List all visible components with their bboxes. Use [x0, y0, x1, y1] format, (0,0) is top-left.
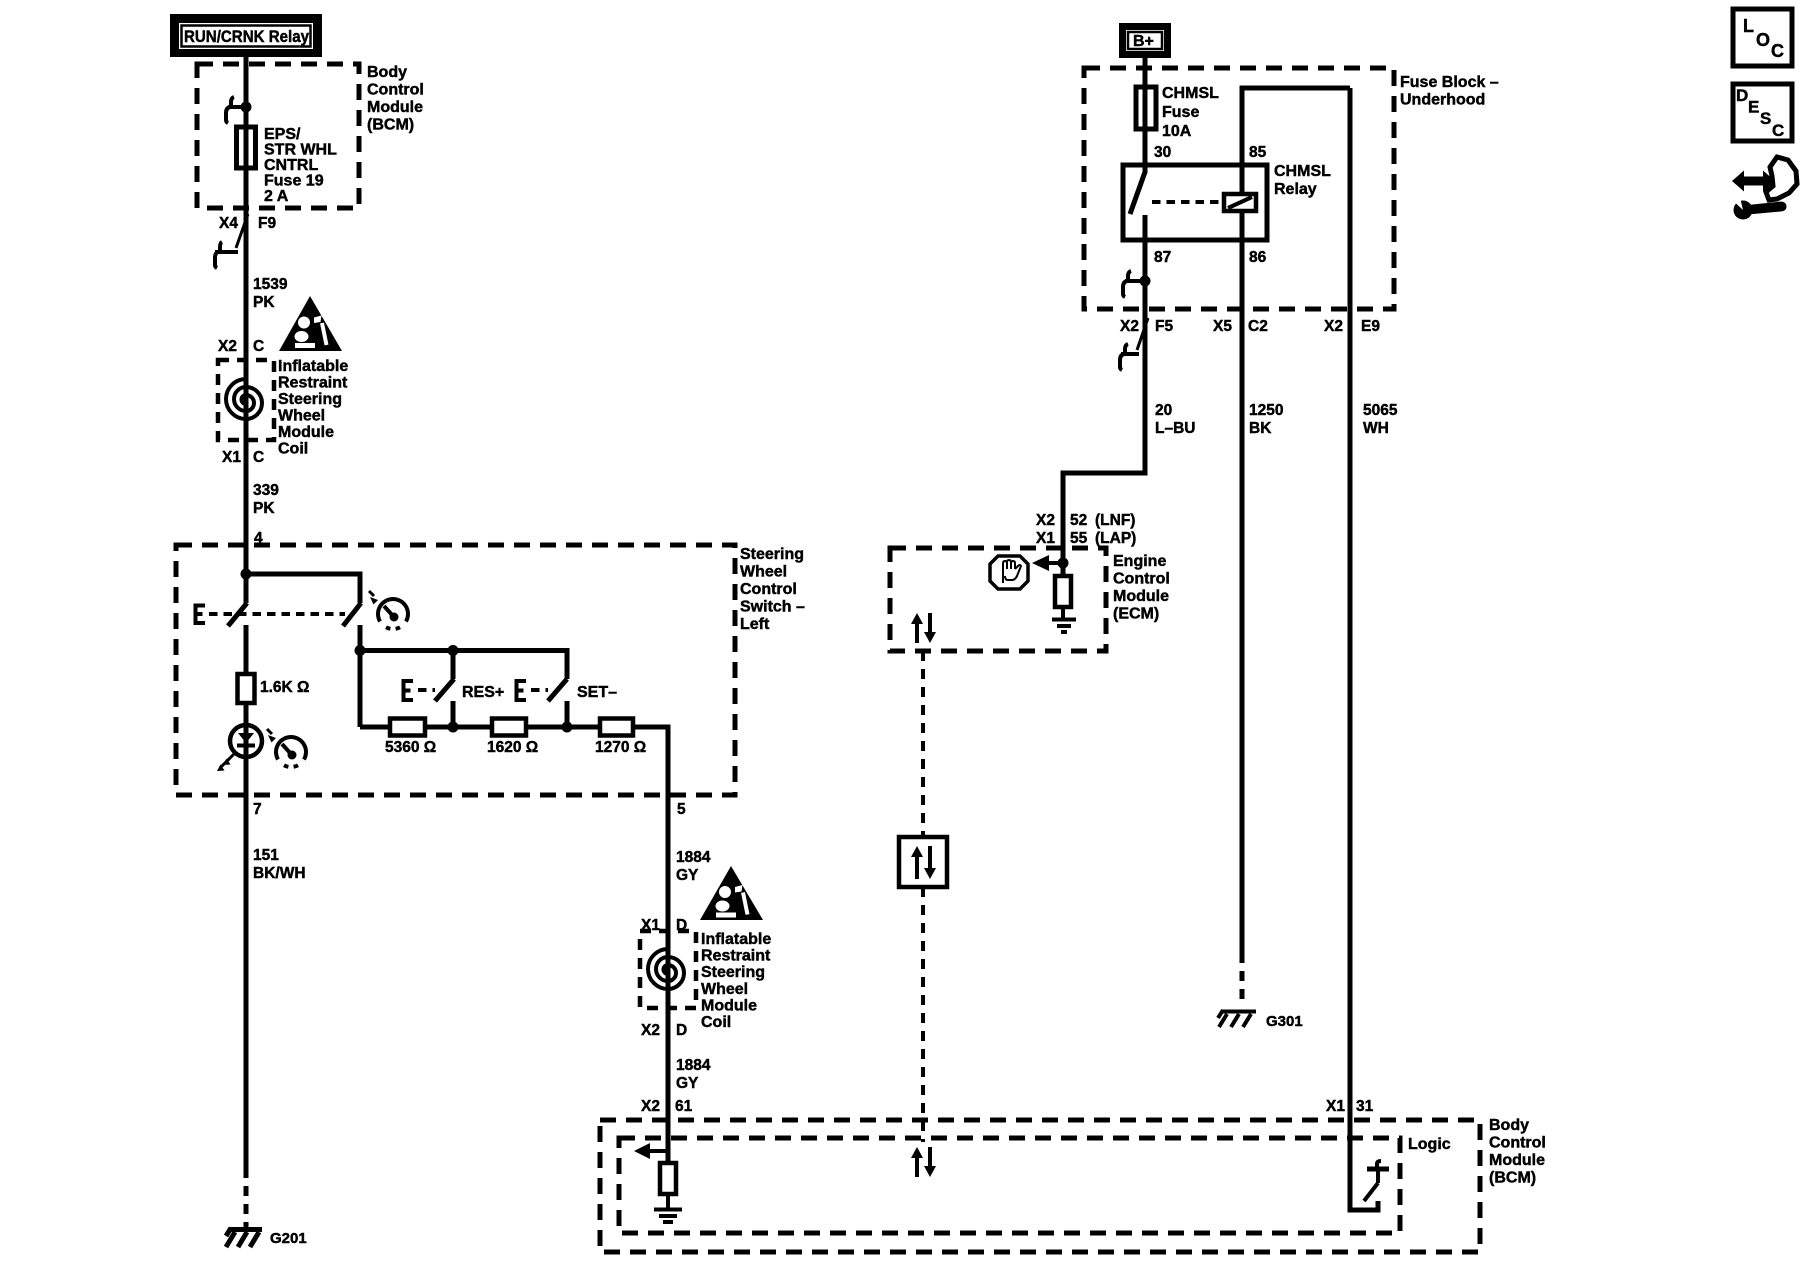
svg-text:Coil: Coil — [278, 441, 308, 458]
BCM bottom label — [1489, 1117, 1546, 1187]
coil spiral (lower) — [648, 949, 684, 989]
svg-text:GY: GY — [676, 867, 699, 884]
coil label (lower) — [701, 931, 771, 1031]
SET- lower stub — [565, 701, 570, 727]
SET- switch blade — [548, 679, 567, 701]
Fuse Block - Underhood dashed box — [1084, 68, 1394, 309]
RES+ dashed link — [418, 688, 435, 692]
resistor inside ECM — [1055, 576, 1071, 607]
BCM label — [367, 64, 424, 134]
svg-text:X2: X2 — [641, 1022, 660, 1039]
svg-text:C: C — [1772, 121, 1784, 140]
svg-text:Control: Control — [740, 581, 797, 598]
svg-text:(BCM): (BCM) — [1489, 1170, 1536, 1187]
CHMSL Relay label — [1274, 163, 1331, 198]
dashed serial data wire — [921, 651, 925, 837]
junction node 5360/RES+ — [448, 722, 459, 733]
svg-text:WH: WH — [1363, 420, 1389, 437]
fuse 19 value label — [264, 126, 337, 205]
SIR warning triangle (lower) — [700, 866, 763, 920]
svg-text:F9: F9 — [258, 215, 276, 232]
svg-text:1884: 1884 — [676, 1057, 711, 1074]
dashed actuator link switch1-switch2 — [209, 612, 345, 616]
junction node RES+ tap — [448, 645, 459, 656]
resistor ladder wire — [360, 727, 668, 795]
connector hook below X4/F9 — [215, 242, 238, 268]
connector X5 C2 labels — [1213, 318, 1268, 335]
connector X1 C labels (coil bottom) — [222, 449, 264, 466]
svg-text:Steering: Steering — [740, 546, 804, 563]
serial data up/down arrows (ECM) — [911, 613, 936, 643]
cruise gauge icon at LED — [267, 729, 306, 767]
svg-text:Restraint: Restraint — [278, 375, 348, 392]
svg-text:E: E — [1748, 98, 1759, 117]
svg-text:5065: 5065 — [1363, 402, 1398, 419]
wire label 339 PK — [253, 482, 279, 517]
svg-text:C: C — [1771, 41, 1784, 61]
Logic inner dashed box — [619, 1138, 1400, 1233]
Inflatable Restraint Steering Wheel Module Coil dashed box (lower) — [640, 931, 696, 1008]
Engine Control Module (ECM) dashed box — [890, 548, 1106, 651]
svg-text:SET–: SET– — [577, 684, 617, 701]
svg-text:B+: B+ — [1133, 33, 1154, 50]
RES+ lower stub — [451, 701, 456, 727]
svg-text:STR WHL: STR WHL — [264, 142, 337, 159]
svg-text:1539: 1539 — [253, 276, 288, 293]
svg-text:X2: X2 — [1036, 512, 1055, 529]
relay coil — [1224, 194, 1256, 211]
junction node switch2/ladder — [355, 645, 366, 656]
svg-text:Fuse Block –: Fuse Block – — [1400, 74, 1499, 91]
svg-text:Module: Module — [278, 424, 334, 441]
connector X1 D labels — [641, 917, 687, 934]
ground (BCM logic) — [654, 1210, 682, 1223]
svg-text:85: 85 — [1249, 144, 1267, 161]
svg-text:RES+: RES+ — [462, 684, 504, 701]
svg-text:G201: G201 — [270, 1230, 307, 1247]
switch box label — [740, 546, 805, 633]
wire: 1.6K to LED — [244, 703, 249, 795]
connector X2 F5 labels — [1120, 318, 1173, 335]
svg-text:339: 339 — [253, 482, 279, 499]
svg-text:EPS/: EPS/ — [264, 126, 301, 143]
svg-text:RUN/CRNK Relay: RUN/CRNK Relay — [184, 28, 310, 46]
resistor 1620 ohm — [492, 719, 526, 736]
junction node at 87 hook — [1140, 276, 1151, 287]
svg-text:Body: Body — [1489, 1117, 1529, 1134]
switch 2 blade — [343, 603, 361, 626]
svg-text:X2: X2 — [218, 338, 237, 355]
wire label 20 L-BU — [1155, 402, 1195, 437]
wire: branch to switch 2 — [246, 574, 360, 603]
svg-text:D: D — [676, 1022, 687, 1039]
wire label 151 BK/WH — [253, 847, 306, 882]
Body Control Module (BCM) bottom outer dashed box — [600, 1120, 1480, 1252]
wire: B+ to relay pin 30 — [1143, 58, 1148, 173]
CHMSL Relay box — [1123, 165, 1267, 240]
fuse EPS/STR WHL CNTRL Fuse 19 2A — [237, 127, 256, 168]
svg-text:Fuse 19: Fuse 19 — [264, 173, 324, 190]
svg-text:C: C — [253, 449, 264, 466]
svg-text:CHMSL: CHMSL — [1274, 163, 1331, 180]
svg-text:1884: 1884 — [676, 849, 711, 866]
relay actuator dashed link — [1152, 200, 1222, 204]
B+ power label box — [1119, 23, 1171, 58]
svg-text:151: 151 — [253, 847, 279, 864]
svg-text:S: S — [1760, 109, 1771, 128]
svg-text:Steering: Steering — [278, 391, 342, 408]
svg-text:E9: E9 — [1361, 318, 1380, 335]
svg-text:(LNF): (LNF) — [1095, 512, 1135, 529]
svg-text:5360 Ω: 5360 Ω — [385, 739, 436, 756]
junction node ECM input — [1058, 558, 1069, 569]
svg-text:7: 7 — [253, 801, 262, 818]
fuse CHMSL 10A — [1136, 87, 1156, 129]
Inflatable Restraint Steering Wheel Module Coil dashed box (upper) — [218, 360, 274, 440]
connector hook below X2/F5 — [1120, 344, 1139, 370]
SET- dashed link — [531, 688, 548, 692]
svg-text:Coil: Coil — [701, 1014, 731, 1031]
wire label 5065 WH — [1363, 402, 1398, 437]
svg-text:52: 52 — [1070, 512, 1087, 529]
svg-text:Module: Module — [1113, 588, 1169, 605]
svg-text:1620 Ω: 1620 Ω — [487, 739, 538, 756]
RES+ switch blade — [435, 679, 454, 701]
svg-text:X1: X1 — [1036, 530, 1055, 547]
svg-text:GY: GY — [676, 1075, 699, 1092]
connector hook inside BCM — [226, 97, 246, 123]
wire: relay 85 to E9 link — [1242, 88, 1350, 194]
wire: node down to 5360 resistor — [358, 650, 363, 727]
junction node at BCM hook — [241, 102, 252, 113]
connector X1 31 labels — [1326, 1098, 1374, 1115]
svg-text:G301: G301 — [1266, 1013, 1303, 1030]
coil label (upper) — [278, 358, 348, 458]
wire: resistor to ground — [666, 1194, 670, 1208]
svg-text:Module: Module — [701, 997, 757, 1014]
svg-text:55: 55 — [1070, 530, 1088, 547]
wire: switch1 to 1.6K resistor — [244, 625, 249, 674]
wire: relay 86 to G301 (1250 BK) — [1240, 211, 1245, 953]
stop lamp hand icon — [990, 556, 1028, 589]
wire label 1539 PK — [253, 276, 288, 311]
svg-text:Wheel: Wheel — [740, 564, 787, 581]
svg-text:Left: Left — [740, 616, 770, 633]
wire: relay 87 down (20 L-BU) — [1063, 215, 1145, 576]
resistor 1.6K ohm — [238, 674, 255, 703]
wire: ECM resistor to ground — [1061, 607, 1065, 618]
svg-text:PK: PK — [253, 294, 275, 311]
junction node pin4 branch — [241, 569, 252, 580]
svg-text:X1: X1 — [1326, 1098, 1345, 1115]
switch 1 blade — [228, 603, 247, 626]
svg-text:X2: X2 — [641, 1098, 660, 1115]
RUN/CRNK Relay power label box — [170, 14, 322, 57]
svg-text:Control: Control — [1113, 571, 1170, 588]
fuse block label — [1400, 74, 1499, 109]
Steering Wheel Control Switch - Left dashed box — [176, 545, 735, 795]
svg-text:Control: Control — [1489, 1135, 1546, 1152]
svg-text:61: 61 — [675, 1098, 693, 1115]
svg-text:87: 87 — [1154, 249, 1171, 266]
svg-text:F5: F5 — [1155, 318, 1173, 335]
SIR warning triangle (upper) — [279, 296, 342, 351]
input arrow at BCM pin 61 — [634, 1143, 668, 1159]
svg-text:CHMSL: CHMSL — [1162, 85, 1219, 102]
svg-text:L–BU: L–BU — [1155, 420, 1195, 437]
svg-text:2 A: 2 A — [264, 188, 289, 205]
svg-text:Wheel: Wheel — [278, 408, 325, 425]
ground G301 — [1218, 1010, 1256, 1027]
wire: RUN/CRNK Relay to switch 1 (1539 PK / 339 PK) — [244, 55, 249, 603]
wire label 1884 GY (upper) — [676, 849, 711, 884]
svg-text:Module: Module — [1489, 1152, 1545, 1169]
svg-text:L: L — [1743, 16, 1754, 36]
svg-text:Wheel: Wheel — [701, 981, 748, 998]
svg-text:1.6K Ω: 1.6K Ω — [260, 679, 309, 696]
svg-text:Restraint: Restraint — [701, 948, 771, 965]
svg-text:Relay: Relay — [1274, 181, 1317, 198]
coil spiral (upper) — [226, 379, 262, 419]
RES+ switch E actuator — [404, 681, 414, 700]
svg-text:(BCM): (BCM) — [367, 117, 414, 134]
svg-text:10A: 10A — [1162, 123, 1192, 140]
resistor inside BCM — [660, 1163, 676, 1194]
svg-text:Underhood: Underhood — [1400, 92, 1485, 109]
junction node 1620/SET- — [562, 722, 573, 733]
svg-text:BK: BK — [1249, 420, 1272, 437]
svg-text:D: D — [1736, 86, 1748, 105]
svg-text:1270 Ω: 1270 Ω — [595, 739, 646, 756]
wire: pin 7 to G201 — [244, 795, 249, 1168]
wire label 1884 GY (lower) — [676, 1057, 711, 1092]
connector X2 61 labels — [641, 1098, 693, 1115]
svg-text:Fuse: Fuse — [1162, 104, 1199, 121]
connector X2 C labels (coil top) — [218, 338, 264, 355]
svg-text:Control: Control — [367, 82, 424, 99]
SET- switch E actuator — [517, 681, 527, 700]
LOC reference box — [1733, 9, 1792, 66]
wire: RES+ upper stub — [451, 650, 456, 679]
svg-text:Engine: Engine — [1113, 553, 1166, 570]
svg-text:(LAP): (LAP) — [1095, 530, 1136, 547]
svg-text:Inflatable: Inflatable — [278, 358, 348, 375]
connector X4 F9 labels — [219, 215, 276, 232]
wire label 1250 BK — [1249, 402, 1283, 437]
svg-text:X2: X2 — [1120, 318, 1139, 335]
svg-text:BK/WH: BK/WH — [253, 865, 306, 882]
ground (ECM) — [1052, 620, 1076, 633]
svg-text:Logic: Logic — [1408, 1136, 1451, 1153]
svg-text:Module: Module — [367, 99, 423, 116]
svg-text:Switch –: Switch – — [740, 599, 805, 616]
svg-text:X1: X1 — [222, 449, 241, 466]
wire: pin 5 to BCM pin 61 — [666, 795, 671, 1163]
svg-text:X5: X5 — [1213, 318, 1232, 335]
cruise gauge icon at switch 2 — [369, 591, 408, 629]
ground G201 — [226, 1222, 262, 1247]
serial data up/down arrows (BCM) — [911, 1147, 936, 1177]
input arrow at ECM — [1032, 555, 1063, 571]
svg-text:Body: Body — [367, 64, 407, 81]
connector slash X2/F5 — [1137, 318, 1148, 350]
serial data box with up/down arrows — [899, 837, 947, 887]
CHMSL fuse label — [1162, 85, 1219, 140]
svg-text:Inflatable: Inflatable — [701, 931, 771, 948]
direction/tools icon — [1729, 157, 1797, 220]
wire: switch 2 to resistor ladder node — [360, 625, 567, 679]
svg-text:20: 20 — [1155, 402, 1172, 419]
wire: E9 to BCM pin 31 (5065 WH) — [1350, 88, 1378, 1210]
svg-text:C: C — [253, 338, 264, 355]
svg-text:(ECM): (ECM) — [1113, 606, 1159, 623]
resistor 5360 ohm — [390, 719, 425, 736]
svg-text:C2: C2 — [1248, 318, 1268, 335]
connector X2 D labels — [641, 1022, 687, 1039]
svg-text:30: 30 — [1154, 144, 1171, 161]
svg-text:31: 31 — [1356, 1098, 1374, 1115]
relay switch blade — [1130, 172, 1145, 214]
DESC reference box — [1733, 84, 1792, 141]
svg-text:Steering: Steering — [701, 964, 765, 981]
svg-text:86: 86 — [1249, 249, 1267, 266]
connector X2 E9 labels — [1324, 318, 1380, 335]
connector terminal inside BCM pin 31 — [1364, 1161, 1389, 1201]
svg-text:PK: PK — [253, 500, 275, 517]
svg-text:X2: X2 — [1324, 318, 1343, 335]
Body Control Module (BCM) top dashed box — [197, 64, 359, 208]
connector slash X4/F9 — [236, 214, 248, 248]
svg-text:X4: X4 — [219, 215, 238, 232]
resistor 1270 ohm — [600, 719, 633, 736]
svg-text:1250: 1250 — [1249, 402, 1283, 419]
connector hook below 87 — [1123, 271, 1145, 297]
ECM label — [1113, 553, 1170, 623]
svg-text:5: 5 — [677, 801, 686, 818]
svg-text:O: O — [1756, 30, 1770, 50]
LED indicator lamp — [217, 725, 262, 771]
connector X2 52 (LNF) / X1 55 (LAP) labels — [1036, 512, 1136, 547]
svg-text:CNTRL: CNTRL — [264, 157, 318, 174]
switch 1 (on/off) E actuator — [196, 606, 206, 624]
